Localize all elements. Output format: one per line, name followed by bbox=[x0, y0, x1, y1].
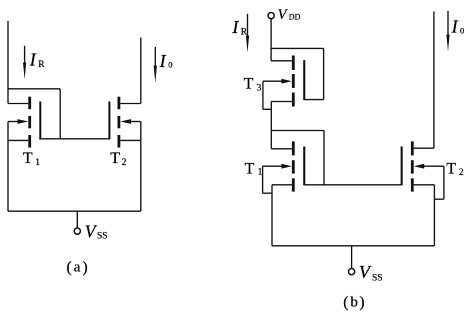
svg-text:T: T bbox=[245, 160, 255, 177]
svg-text:0: 0 bbox=[460, 26, 464, 36]
svg-text:I: I bbox=[451, 16, 459, 36]
svg-text:T: T bbox=[23, 150, 33, 167]
svg-text:0: 0 bbox=[168, 60, 172, 70]
svg-text:DD: DD bbox=[289, 13, 301, 22]
svg-text:1: 1 bbox=[35, 158, 40, 168]
svg-text:I: I bbox=[29, 50, 37, 70]
svg-text:b: b bbox=[350, 295, 358, 311]
svg-text:SS: SS bbox=[97, 232, 108, 242]
svg-text:SS: SS bbox=[372, 273, 383, 283]
svg-text:(: ( bbox=[67, 259, 72, 276]
svg-text:R: R bbox=[38, 60, 45, 70]
svg-text:T: T bbox=[110, 150, 120, 167]
svg-text:T: T bbox=[244, 76, 254, 93]
svg-text:R: R bbox=[241, 27, 248, 37]
svg-text:I: I bbox=[231, 17, 239, 37]
svg-text:2: 2 bbox=[122, 158, 127, 168]
svg-text:a: a bbox=[74, 260, 81, 276]
svg-text:I: I bbox=[159, 51, 167, 71]
svg-text:): ) bbox=[83, 259, 88, 276]
svg-text:): ) bbox=[359, 294, 364, 311]
svg-text:2: 2 bbox=[459, 168, 464, 178]
svg-text:T: T bbox=[446, 161, 456, 178]
svg-text:3: 3 bbox=[257, 84, 262, 94]
svg-text:1: 1 bbox=[258, 168, 263, 178]
svg-text:(: ( bbox=[343, 294, 348, 311]
